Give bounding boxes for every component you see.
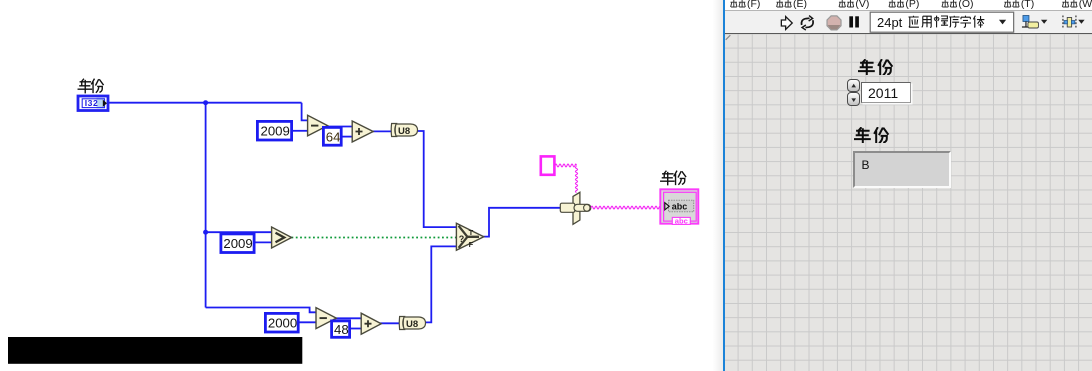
wire: elbow into subtract1 top input (302, 103, 308, 121)
wire: add1 output to U8a (373, 130, 393, 132)
terminal I32 (control 年份) (78, 96, 108, 111)
add U5 (361, 313, 381, 334)
align objects button (1022, 15, 1047, 27)
wire: trunk bottom elbow into subtract2 (206, 308, 316, 313)
front panel window blue border (723, 0, 726, 371)
wire: U8a to select T input (417, 131, 457, 227)
svg-text:U8: U8 (406, 319, 418, 330)
subtract U1 (308, 115, 328, 136)
wire: pink string wavy conversion to indicator (591, 206, 663, 209)
wire: constant 2000 to subtract2 (298, 321, 317, 323)
subtract U4 (316, 308, 336, 329)
svg-text:(O): (O) (958, 0, 973, 10)
svg-text:?: ? (459, 234, 465, 244)
svg-text:(T): (T) (1021, 0, 1034, 10)
number-to-string conversion node U7 (560, 192, 591, 224)
wire: constant 2009a to subtract1 (292, 130, 308, 132)
svg-text:(E): (E) (793, 0, 807, 10)
svg-text:(W: (W (1079, 0, 1092, 10)
wire: constant 48 to add2 bottom input (350, 328, 361, 330)
add U2 (352, 121, 373, 142)
wire: boolean green dotted greater->select (292, 237, 457, 239)
wire: constant 64 to add1 bottom input (343, 136, 353, 138)
svg-text:I32: I32 (85, 98, 98, 108)
svg-text:abc: abc (675, 217, 688, 226)
wire: terminal to top elbow (108, 102, 302, 104)
wire: pink string wavy const to conversion (555, 164, 578, 192)
wire: select output to string conversion (484, 208, 561, 237)
menu item 编辑(E) (777, 0, 807, 10)
panel origin fold mark (725, 34, 737, 46)
wire: trunk vertical (205, 103, 207, 308)
constant 2000 (265, 313, 298, 332)
abort button (octagon, disabled) (827, 15, 841, 29)
svg-text:64: 64 (326, 130, 341, 145)
string indicator terminal 年份 (660, 189, 698, 225)
svg-text:abc: abc (672, 202, 688, 212)
pause button (849, 16, 859, 27)
panel label1 年份 (bold) (858, 59, 896, 75)
node junction top (203, 100, 208, 105)
node junction middle (203, 230, 208, 235)
wire: subtract1 output to add1 top input (326, 126, 352, 128)
wire: add2 output to U8b (380, 322, 401, 324)
toolbar icons (725, 10, 1092, 34)
font selector dropdown (870, 12, 1013, 32)
block diagram right edge gradient (708, 0, 723, 371)
numeric control increment/decrement buttons (847, 79, 860, 93)
distribute objects button (1063, 15, 1085, 28)
indicator label 年份 (661, 171, 686, 184)
run arrow button (781, 16, 792, 29)
select node U6 (456, 223, 483, 250)
toolbar (725, 10, 1092, 34)
svg-text:(F): (F) (747, 0, 760, 10)
wire: U8b up to select F input (425, 246, 457, 322)
redaction black rectangle (8, 337, 302, 364)
menu item 文件(F) (731, 0, 761, 10)
constant 2009a (257, 121, 291, 140)
menu bar (725, 0, 1092, 10)
conversion U8a (391, 124, 417, 138)
svg-text:T: T (469, 228, 474, 237)
control label 年份 (78, 79, 103, 92)
svg-text:U8: U8 (398, 126, 410, 137)
svg-text:48: 48 (334, 322, 349, 337)
menu text items (clipped at top) (725, 0, 1092, 10)
wire: subtract2 output to add2 top input (335, 317, 362, 319)
menu item 项目(P) (889, 0, 919, 10)
menu item 工具(T) (1004, 0, 1034, 10)
menu item 窗口(W) (1062, 0, 1092, 10)
svg-text:2000: 2000 (268, 316, 297, 331)
string constant (empty) (541, 156, 555, 174)
constant 64 (323, 127, 341, 145)
string indicator box with B (853, 151, 951, 188)
conversion U8b (399, 317, 425, 331)
greater? node U3 (272, 227, 292, 248)
constant 2009b (221, 234, 254, 253)
run continuously button (802, 15, 814, 29)
menu item 查看(V) (839, 0, 869, 10)
wire: constant 2009b to greater node (254, 241, 272, 243)
wire: trunk to greater node top input (206, 231, 272, 233)
numeric control field with 2011 (861, 82, 912, 103)
svg-text:F: F (469, 240, 474, 249)
menu item 操作(O) (942, 0, 974, 10)
panel grid background (725, 34, 1092, 371)
constant 48 (332, 321, 350, 337)
svg-text:(V): (V) (856, 0, 870, 10)
svg-text:2009: 2009 (223, 236, 252, 251)
svg-text:2009: 2009 (261, 124, 290, 139)
svg-text:24pt: 24pt (877, 15, 903, 30)
svg-text:(P): (P) (905, 0, 919, 10)
panel label2 年份 (bold) (854, 127, 892, 143)
